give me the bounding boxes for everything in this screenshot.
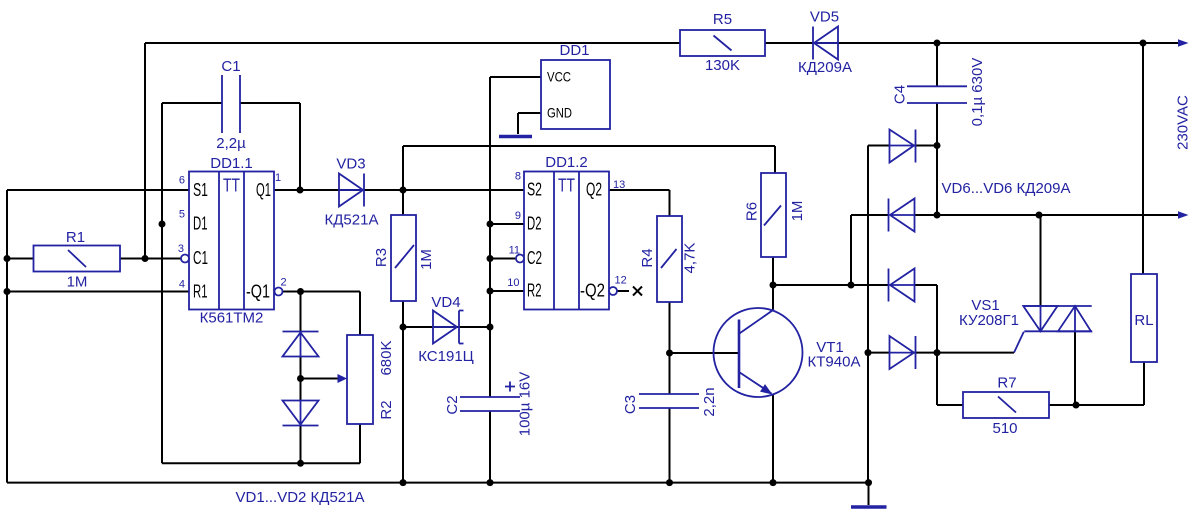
- svg-text:КУ208Г1: КУ208Г1: [959, 312, 1019, 329]
- svg-text:D1: D1: [193, 214, 208, 234]
- svg-text:10: 10: [507, 277, 519, 289]
- svg-text:12: 12: [615, 275, 627, 287]
- svg-text:К561ТМ2: К561ТМ2: [200, 310, 264, 327]
- svg-text:C2: C2: [527, 248, 542, 268]
- svg-text:R3: R3: [373, 248, 390, 267]
- svg-text:C2: C2: [444, 395, 461, 414]
- svg-text:КТ940А: КТ940А: [808, 354, 861, 371]
- svg-text:R1: R1: [66, 229, 85, 246]
- svg-text:VCC: VCC: [547, 69, 571, 85]
- svg-text:RL: RL: [1134, 312, 1153, 329]
- svg-text:VD4: VD4: [431, 294, 460, 311]
- svg-text:C4: C4: [892, 85, 909, 104]
- svg-text:13: 13: [613, 179, 625, 191]
- svg-text:C1: C1: [221, 58, 240, 75]
- svg-text:5: 5: [179, 209, 185, 221]
- svg-text:TT: TT: [558, 176, 575, 196]
- svg-text:GND: GND: [547, 105, 572, 121]
- svg-text:8: 8: [515, 171, 521, 183]
- svg-text:R2: R2: [378, 400, 395, 419]
- svg-text:Q1: Q1: [256, 180, 271, 200]
- svg-text:КД209А: КД209А: [798, 59, 852, 76]
- svg-text:D2: D2: [527, 214, 542, 234]
- svg-text:2,2µ: 2,2µ: [216, 135, 246, 152]
- svg-text:510: 510: [992, 420, 1017, 437]
- svg-text:VD5: VD5: [810, 9, 839, 26]
- svg-text:1M: 1M: [67, 274, 88, 291]
- svg-text:2: 2: [281, 277, 287, 289]
- svg-text:TT: TT: [223, 176, 240, 196]
- svg-text:9: 9: [515, 210, 521, 222]
- svg-text:680K: 680K: [378, 340, 395, 375]
- svg-text:230VAC: 230VAC: [1175, 95, 1192, 150]
- svg-text:R1: R1: [193, 282, 208, 302]
- svg-text:VD6...VD6 КД209А: VD6...VD6 КД209А: [942, 180, 1071, 197]
- svg-text:VD1...VD2 КД521А: VD1...VD2 КД521А: [236, 489, 365, 506]
- svg-text:4: 4: [179, 279, 185, 291]
- svg-text:3: 3: [178, 243, 184, 255]
- svg-text:R6: R6: [744, 202, 761, 221]
- svg-text:2,2n: 2,2n: [701, 387, 718, 416]
- svg-text:-Q1: -Q1: [246, 282, 270, 302]
- svg-text:DD1.1: DD1.1: [210, 155, 253, 172]
- svg-text:S2: S2: [527, 180, 542, 200]
- svg-text:C3: C3: [622, 395, 639, 414]
- svg-text:100µ 16V: 100µ 16V: [517, 372, 534, 437]
- svg-text:-Q2: -Q2: [580, 281, 605, 301]
- svg-text:4,7K: 4,7K: [682, 243, 699, 274]
- svg-text:6: 6: [179, 175, 185, 187]
- svg-text:DD1: DD1: [559, 42, 589, 59]
- svg-text:0,1µ 630V: 0,1µ 630V: [969, 58, 986, 127]
- svg-text:R7: R7: [997, 375, 1016, 392]
- svg-text:КС191Ц: КС191Ц: [418, 348, 474, 365]
- svg-text:R4: R4: [639, 248, 656, 267]
- svg-text:130K: 130K: [705, 57, 740, 74]
- svg-text:DD1.2: DD1.2: [545, 154, 588, 171]
- svg-text:R2: R2: [527, 281, 542, 301]
- svg-text:КД521А: КД521А: [325, 212, 379, 229]
- svg-text:1M: 1M: [789, 201, 806, 222]
- svg-text:11: 11: [509, 245, 520, 257]
- svg-text:S1: S1: [193, 180, 208, 200]
- svg-text:1: 1: [275, 172, 281, 184]
- svg-text:R5: R5: [713, 11, 732, 28]
- svg-text:C1: C1: [193, 248, 208, 268]
- svg-text:1M: 1M: [418, 249, 435, 270]
- svg-text:VD3: VD3: [336, 156, 365, 173]
- svg-text:Q2: Q2: [586, 180, 602, 200]
